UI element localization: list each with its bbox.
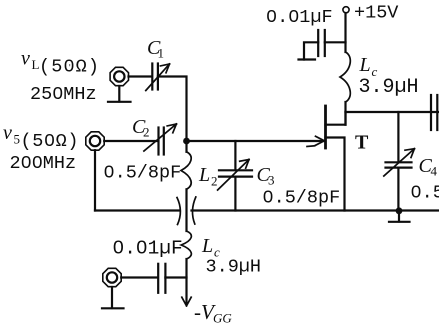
transistor T source lead: [326, 138, 345, 211]
label Lc (bottom): [201, 235, 220, 260]
svg-text:3.9µH: 3.9µH: [206, 257, 262, 278]
inductor L2 (coil on junction-to-Lc link): [181, 141, 191, 231]
ground (under J1): [108, 86, 131, 102]
wire drain node to output (right): [346, 111, 439, 113]
svg-text:250MHz: 250MHz: [30, 84, 97, 105]
ground (under J3): [102, 287, 124, 308]
inductor Lc (gate choke): [181, 231, 191, 304]
wire junction to gate: [187, 140, 325, 142]
ground (output tank): [389, 211, 410, 222]
transistor T drain lead: [326, 112, 346, 125]
wire crossing hop (rail passes L2-Lc link): [177, 197, 196, 225]
wire J3 to bias cap: [121, 276, 157, 278]
label 3.9uH (bottom): [206, 257, 262, 278]
connector J1 (vL input): [110, 67, 128, 85]
svg-text:(50Ω): (50Ω): [21, 131, 79, 152]
label C1: [147, 37, 164, 61]
label C4: [419, 155, 438, 179]
svg-text:L: L: [359, 54, 371, 76]
label 0.5/8pF (C4 value, clipped): [411, 183, 439, 204]
capacitor output coupling (right edge): [431, 95, 437, 130]
svg-text:v: v: [21, 48, 30, 70]
inductor Lc (drain choke): [340, 52, 350, 125]
label 0.01uF (top): [266, 7, 333, 28]
svg-text:0.5/8pF: 0.5/8pF: [263, 188, 341, 209]
wire J1 to C1: [129, 75, 152, 77]
capacitor bypass 0.01uF (top): [299, 30, 346, 60]
label T: [355, 132, 369, 154]
wire J2 down to rail: [94, 150, 96, 210]
label v5(50 ohm): [3, 122, 79, 152]
label vL(50 ohm): [21, 48, 99, 78]
label 3.9uH (top): [359, 76, 419, 99]
wire bottom rail left segment: [95, 209, 179, 211]
svg-text:2: 2: [211, 174, 218, 189]
svg-text:0.5/8pF: 0.5/8pF: [411, 183, 439, 204]
node junction dot (C4/rail/ground): [396, 207, 403, 214]
label Lc (top): [359, 54, 378, 79]
capacitor 0.01uF (bias): [158, 264, 186, 293]
svg-text:L: L: [201, 235, 213, 257]
svg-text:T: T: [355, 132, 369, 154]
svg-text:GG: GG: [213, 311, 232, 323]
svg-text:200MHz: 200MHz: [10, 153, 77, 174]
connector J3 (gate bias input): [103, 268, 121, 286]
node junction dot (C1/C2/gate): [183, 138, 190, 145]
svg-text:0.5/8pF: 0.5/8pF: [104, 163, 182, 184]
connector J2 (v5 input): [86, 132, 104, 150]
label C2: [132, 116, 150, 140]
label +15V: [354, 3, 398, 24]
label 250MHz: [30, 84, 97, 105]
svg-text:+15V: +15V: [354, 3, 398, 24]
svg-text:5: 5: [14, 132, 21, 147]
label -VGG: [194, 300, 232, 323]
label 0.01uF (bias): [113, 238, 183, 260]
capacitor C2 (variable): [144, 124, 177, 155]
arrow to -VGG: [182, 297, 191, 306]
svg-text:(50Ω): (50Ω): [39, 57, 99, 78]
wire bottom rail right segment: [192, 209, 439, 211]
wire J2 to C2: [104, 140, 157, 142]
svg-text:3: 3: [268, 173, 275, 188]
svg-text:3.9µH: 3.9µH: [359, 76, 419, 99]
label 0.5/8pF (C2 value): [104, 163, 182, 184]
capacitor C1 (variable): [146, 64, 170, 91]
svg-text:4: 4: [431, 164, 438, 179]
svg-text:0.01µF: 0.01µF: [266, 7, 333, 28]
capacitor C4 (variable, output tank): [384, 112, 415, 211]
supply terminal +15V: [343, 7, 349, 52]
zero-glyph dot covers: [25, 14, 418, 249]
label 200MHz: [10, 153, 77, 174]
svg-text:v: v: [3, 122, 12, 144]
label 0.5/8pF (C3 value): [263, 188, 341, 209]
svg-text:L: L: [198, 164, 210, 186]
svg-text:0.01µF: 0.01µF: [113, 238, 183, 260]
svg-text:2: 2: [143, 125, 150, 140]
wire C1 to junction, corner down: [158, 77, 187, 141]
svg-text:1: 1: [158, 46, 165, 61]
capacitor C3 (variable, junction wire to rail): [218, 141, 252, 211]
label L2: [198, 164, 218, 189]
label C3: [257, 164, 275, 188]
transistor Q1 (JFET T) channel bar: [324, 106, 327, 148]
transistor T gate arrowhead: [307, 136, 324, 146]
